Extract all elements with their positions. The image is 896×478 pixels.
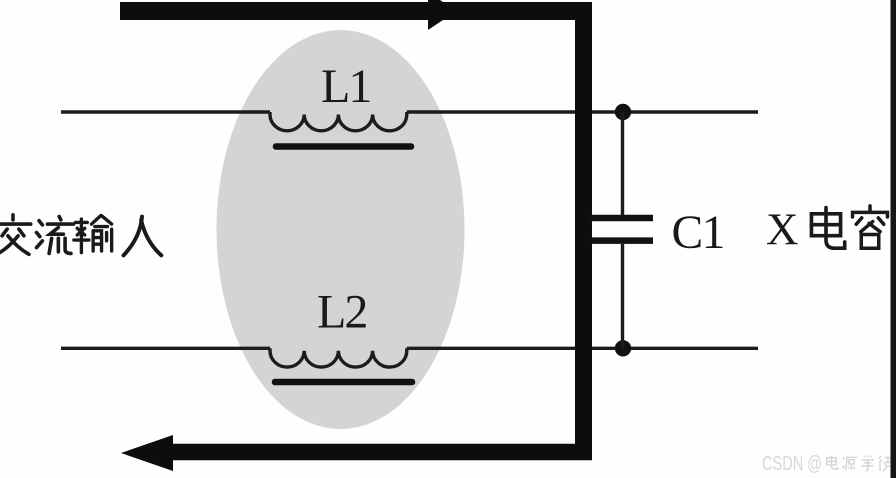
label 流 (of 交流输入) <box>37 217 74 254</box>
node top junction <box>615 104 631 120</box>
wire (capacitor bottom lead) <box>621 244 624 348</box>
watermark 徒 (of 电源学徒) <box>879 456 893 471</box>
label 入 (of 交流输入) <box>124 217 162 256</box>
arrowhead (bottom, pointing left) <box>121 435 173 471</box>
common-mode choke body (gray ellipse) <box>217 30 465 429</box>
thick bottom bus wire <box>158 444 592 461</box>
capacitor C1 bottom plate <box>590 237 653 244</box>
L2 core bar <box>275 379 412 386</box>
label 容 (of 电容) <box>853 206 888 248</box>
watermark 学 (of 电源学徒) <box>861 455 873 470</box>
svg-text:CSDN @: CSDN @ <box>762 453 822 475</box>
wire (top line right segment) <box>407 110 758 113</box>
label 输 (of 交流输入) <box>74 216 112 253</box>
svg-text:L2: L2 <box>317 286 366 339</box>
svg-text:L1: L1 <box>321 60 370 113</box>
label 电 (of 电容) <box>811 208 844 249</box>
wire (bottom line phase) <box>61 347 270 350</box>
label 交 (of 交流输入) <box>0 215 31 254</box>
watermark 源 (of 电源学徒) <box>842 457 857 471</box>
inductor L2 <box>270 348 407 367</box>
arrowhead (top, pointing right) <box>428 0 457 30</box>
svg-text:X: X <box>766 205 799 255</box>
svg-text:C1: C1 <box>672 207 724 259</box>
wire (top line phase) <box>61 110 270 113</box>
capacitor C1 top plate <box>590 215 653 222</box>
thick right bus wire <box>575 2 592 460</box>
L1 core bar <box>276 143 411 150</box>
wire (capacitor top lead) <box>621 112 624 215</box>
watermark 电 (of 电源学徒) <box>827 456 838 469</box>
right edge black bar <box>891 0 896 478</box>
wire (bottom line right segment) <box>407 347 758 350</box>
inductor L1 <box>270 112 407 131</box>
thick top bus wire <box>120 2 592 20</box>
node bottom junction <box>615 340 631 356</box>
